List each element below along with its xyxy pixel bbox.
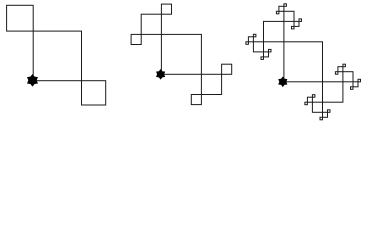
panel 3 level-3 square SE-NE-NW: [338, 67, 343, 72]
panel 3 level-3 square SE-SW-SE: [323, 112, 328, 117]
panel 3 level-4 square NW-NE-NW-SW: [276, 11, 279, 14]
panel 3 level-4 square NW-NE-SE-SW: [292, 26, 295, 29]
panel 3 level-4 square SE-NE-SE-NE: [358, 79, 361, 82]
panel 2 level-2 square SE-NE: [222, 64, 232, 74]
panel 1 level-1 square SE: [82, 81, 106, 105]
panel 3 level-4 square SE-SW-NW-NE: [312, 95, 315, 98]
panel 3 level-4 square NW-NE-NW-NE: [284, 4, 287, 7]
panel 3 level-4 square SE-SW-SE-SW: [320, 117, 323, 120]
panel 3 central square: [284, 42, 323, 82]
panel 2 star start-point marker: [156, 69, 165, 80]
panel 1 central square: [33, 31, 81, 81]
panel 3 level-3 square NW-NE-NW: [279, 6, 284, 11]
panel 2 level-2 square NW-SW: [131, 34, 141, 44]
panel 3 level-3 square NW-NE-SE: [294, 21, 299, 26]
panel 3 level-3 square SE-NE-SE: [353, 82, 358, 87]
panel 3 level-4 square SE-SW-NW-SW: [305, 102, 308, 105]
panel 2 level-1 square SE: [201, 74, 221, 94]
panel 3 level-3 square SE-SW-NW: [307, 97, 312, 102]
panel 2 level-2 square NW-NE: [161, 4, 171, 14]
panel 3 level-2 square NW-NE: [284, 11, 294, 21]
panel 3 level-4 square NW-SW-SE-NE: [269, 49, 272, 52]
panel 2 level-1 square NW: [141, 14, 161, 34]
panel 1 level-1 square NW: [7, 5, 34, 31]
panel 3 level-1 square NW: [264, 21, 284, 41]
panel 3 level-2 square SE-NE: [343, 72, 353, 82]
panel 3 level-4 square SE-SW-SE-NE: [328, 110, 331, 113]
panel 3 level-2 square NW-SW: [253, 42, 263, 52]
panel 3 level-4 square NW-NE-SE-NE: [299, 19, 302, 22]
panel 3 level-4 square SE-NE-NW-SW: [335, 72, 338, 75]
panel 3 level-4 square NW-SW-NW-SW: [246, 42, 249, 45]
panel 2 central square: [161, 34, 201, 74]
panel 3 level-3 square NW-SW-SE: [264, 52, 269, 57]
panel 3 level-1 square SE: [323, 82, 343, 102]
panel 3 level-4 square NW-SW-NW-NE: [253, 34, 256, 37]
panel 3 level-4 square NW-SW-SE-SW: [261, 57, 264, 60]
panel 1 star start-point marker: [27, 74, 38, 87]
panel 3 level-4 square SE-NE-NW-NE: [343, 64, 346, 67]
panel 2 level-2 square SE-SW: [191, 95, 201, 105]
panel 3 level-3 square NW-SW-NW: [248, 37, 253, 42]
panel 3 star start-point marker: [278, 77, 287, 88]
panel 3 level-4 square SE-NE-SE-SW: [351, 87, 354, 90]
panel 3 level-2 square SE-SW: [312, 102, 322, 112]
